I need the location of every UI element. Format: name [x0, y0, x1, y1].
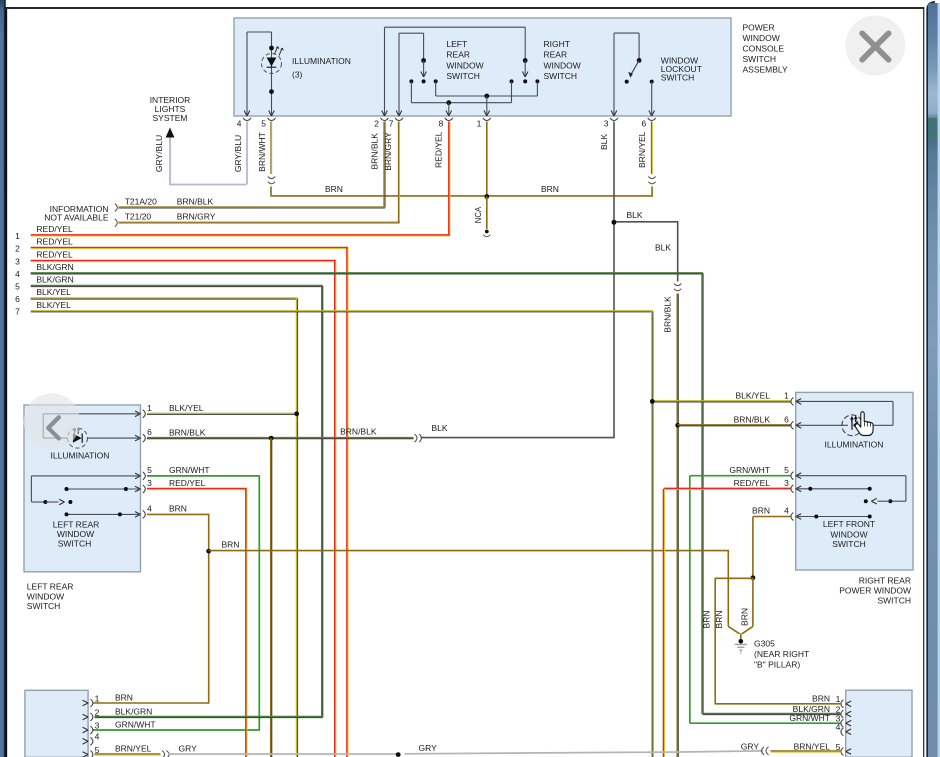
- svg-text:RED/YEL: RED/YEL: [36, 237, 73, 247]
- svg-text:(3): (3): [292, 70, 303, 80]
- svg-text:SWITCH: SWITCH: [544, 71, 578, 81]
- svg-text:CONSOLE: CONSOLE: [743, 44, 785, 54]
- svg-text:1: 1: [95, 693, 100, 703]
- svg-text:BRN/YEL: BRN/YEL: [115, 744, 152, 754]
- svg-text:GRY/BLU: GRY/BLU: [154, 135, 164, 172]
- svg-text:"B" PILLAR): "B" PILLAR): [754, 659, 800, 669]
- svg-text:5: 5: [147, 465, 152, 475]
- svg-text:BRN/GRY: BRN/GRY: [177, 212, 216, 222]
- svg-text:POWER WINDOW: POWER WINDOW: [839, 586, 911, 596]
- svg-text:ILLUMINATION: ILLUMINATION: [825, 439, 884, 449]
- svg-text:SWITCH: SWITCH: [743, 54, 777, 64]
- svg-text:4: 4: [836, 722, 841, 732]
- svg-text:4: 4: [237, 119, 242, 129]
- svg-text:WINDOW: WINDOW: [27, 591, 64, 601]
- svg-text:GRY/BLU: GRY/BLU: [233, 135, 243, 172]
- svg-text:(NEAR RIGHT: (NEAR RIGHT: [754, 649, 809, 659]
- svg-text:BLK/YEL: BLK/YEL: [169, 403, 204, 413]
- svg-text:SWITCH: SWITCH: [27, 601, 61, 611]
- svg-text:1: 1: [836, 694, 841, 704]
- svg-text:GRN/WHT: GRN/WHT: [729, 465, 770, 475]
- svg-text:RED/YEL: RED/YEL: [169, 478, 206, 488]
- svg-text:BRN/BLK: BRN/BLK: [340, 427, 377, 437]
- svg-text:BLK/GRN: BLK/GRN: [36, 262, 73, 272]
- svg-text:BLK/GRN: BLK/GRN: [115, 706, 152, 716]
- svg-text:6: 6: [784, 414, 789, 424]
- svg-text:SWITCH: SWITCH: [446, 71, 480, 81]
- svg-text:SWITCH: SWITCH: [877, 596, 911, 606]
- svg-text:6: 6: [147, 427, 152, 437]
- svg-text:3: 3: [15, 256, 20, 266]
- svg-text:BRN/BLK: BRN/BLK: [734, 414, 771, 424]
- svg-text:LEFT REAR: LEFT REAR: [27, 582, 74, 592]
- svg-text:4: 4: [784, 506, 789, 516]
- svg-text:GRY: GRY: [179, 744, 198, 754]
- svg-text:3: 3: [604, 119, 609, 129]
- svg-text:3: 3: [784, 478, 789, 488]
- svg-text:NOT AVAILABLE: NOT AVAILABLE: [44, 213, 109, 223]
- svg-text:GRN/WHT: GRN/WHT: [169, 465, 210, 475]
- svg-text:BRN/GRY: BRN/GRY: [383, 132, 393, 171]
- svg-text:SWITCH: SWITCH: [832, 539, 866, 549]
- svg-text:SWITCH: SWITCH: [661, 73, 695, 83]
- svg-text:REAR: REAR: [446, 50, 470, 60]
- svg-text:SYSTEM: SYSTEM: [153, 113, 188, 123]
- svg-text:5: 5: [15, 281, 20, 291]
- svg-text:ILLUMINATION: ILLUMINATION: [51, 451, 110, 461]
- svg-text:BRN/BLK: BRN/BLK: [177, 196, 214, 206]
- svg-text:1: 1: [784, 391, 789, 401]
- svg-text:G305: G305: [754, 638, 775, 648]
- svg-text:7: 7: [389, 119, 394, 129]
- svg-text:RED/YEL: RED/YEL: [36, 224, 73, 234]
- svg-text:BLK/YEL: BLK/YEL: [36, 287, 71, 297]
- svg-text:RED/YEL: RED/YEL: [434, 131, 444, 168]
- svg-text:4: 4: [15, 269, 20, 279]
- svg-text:2: 2: [15, 243, 20, 253]
- svg-text:1: 1: [15, 231, 20, 241]
- svg-text:BRN: BRN: [739, 608, 749, 626]
- svg-text:T21/20: T21/20: [125, 212, 152, 222]
- svg-text:BLK: BLK: [655, 243, 671, 253]
- svg-text:LEFT REAR: LEFT REAR: [53, 519, 100, 529]
- svg-text:8: 8: [439, 119, 444, 129]
- svg-text:ASSEMBLY: ASSEMBLY: [743, 65, 789, 75]
- svg-text:2: 2: [374, 119, 379, 129]
- svg-text:BRN: BRN: [714, 611, 724, 629]
- svg-text:5: 5: [784, 465, 789, 475]
- svg-text:BRN/BLK: BRN/BLK: [663, 296, 673, 333]
- svg-text:BRN: BRN: [541, 184, 559, 194]
- svg-text:LEFT FRONT: LEFT FRONT: [823, 519, 875, 529]
- svg-text:BRN: BRN: [169, 504, 187, 514]
- svg-text:WINDOW: WINDOW: [544, 60, 581, 70]
- svg-text:BRN: BRN: [325, 184, 343, 194]
- svg-text:GRY: GRY: [741, 741, 760, 751]
- svg-text:BRN: BRN: [115, 692, 133, 702]
- svg-text:NCA: NCA: [474, 206, 483, 223]
- svg-text:BLK: BLK: [432, 423, 448, 433]
- svg-text:RED/YEL: RED/YEL: [734, 478, 771, 488]
- svg-text:5: 5: [261, 119, 266, 129]
- svg-text:WINDOW: WINDOW: [743, 33, 780, 43]
- svg-text:BLK: BLK: [599, 134, 609, 150]
- svg-text:GRN/WHT: GRN/WHT: [115, 719, 156, 729]
- svg-text:BLK: BLK: [627, 210, 643, 220]
- svg-text:T21A/20: T21A/20: [125, 196, 157, 206]
- svg-text:POWER: POWER: [743, 23, 775, 33]
- svg-text:BRN/YEL: BRN/YEL: [794, 741, 831, 751]
- svg-text:BRN: BRN: [222, 539, 240, 549]
- svg-text:RIGHT REAR: RIGHT REAR: [859, 576, 911, 586]
- svg-text:BRN/BLK: BRN/BLK: [169, 427, 206, 437]
- svg-text:SWITCH: SWITCH: [58, 538, 92, 548]
- svg-text:1: 1: [147, 403, 152, 413]
- svg-text:GRY: GRY: [419, 743, 438, 753]
- svg-text:4: 4: [147, 504, 152, 514]
- svg-text:BRN/BLK: BRN/BLK: [369, 133, 379, 170]
- svg-text:BLK/GRN: BLK/GRN: [36, 275, 73, 285]
- svg-text:REAR: REAR: [544, 50, 568, 60]
- svg-text:3: 3: [95, 720, 100, 730]
- svg-text:7: 7: [15, 307, 20, 317]
- svg-text:3: 3: [147, 478, 152, 488]
- svg-text:6: 6: [15, 294, 20, 304]
- svg-text:BRN/YEL: BRN/YEL: [637, 131, 647, 168]
- svg-text:LEFT: LEFT: [446, 39, 467, 49]
- svg-text:RIGHT: RIGHT: [544, 39, 570, 49]
- svg-text:BRN: BRN: [752, 506, 770, 516]
- svg-text:BRN: BRN: [812, 694, 830, 704]
- svg-text:1: 1: [477, 119, 482, 129]
- svg-text:RED/YEL: RED/YEL: [36, 250, 73, 260]
- svg-text:4: 4: [95, 732, 100, 742]
- svg-text:ILLUMINATION: ILLUMINATION: [292, 56, 351, 66]
- svg-text:BRN/WHT: BRN/WHT: [257, 132, 267, 172]
- svg-text:BRN: BRN: [701, 611, 711, 629]
- svg-text:6: 6: [641, 119, 646, 129]
- svg-text:BLK/YEL: BLK/YEL: [36, 300, 71, 310]
- svg-text:BLK/YEL: BLK/YEL: [736, 390, 771, 400]
- svg-text:WINDOW: WINDOW: [446, 60, 483, 70]
